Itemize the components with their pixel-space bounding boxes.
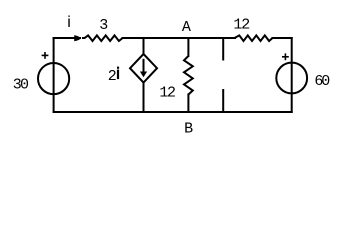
wire bottom segment bbox=[54, 111, 292, 113]
wire top-right segment bbox=[273, 37, 292, 39]
voltage source V2 60 circle bbox=[276, 63, 307, 94]
svg-text:12: 12 bbox=[159, 85, 176, 102]
dependent source arrow bbox=[140, 59, 147, 77]
resistor R1 3 ohm bbox=[82, 35, 123, 41]
resistor R2 12 ohm top bbox=[235, 35, 273, 41]
svg-text:3: 3 bbox=[99, 17, 108, 34]
wire top-middle segment bbox=[123, 37, 235, 39]
wire left branch bbox=[53, 38, 55, 112]
wire open terminal stub lower bbox=[222, 90, 224, 112]
wire top-left segment bbox=[54, 37, 80, 39]
dependent current source U1 2i diamond bbox=[130, 54, 157, 83]
wire right branch bbox=[291, 38, 293, 112]
current arrow i on top wire bbox=[74, 35, 81, 41]
wire dependent source branch lower bbox=[143, 83, 145, 113]
wire resistor branch upper bbox=[187, 38, 189, 56]
resistor R3 12 ohm middle bbox=[184, 56, 193, 95]
wire resistor branch lower bbox=[187, 95, 189, 113]
wire open terminal stub upper bbox=[222, 38, 224, 60]
svg-text:2: 2 bbox=[108, 68, 117, 85]
plus sign of source V2 bbox=[282, 53, 289, 60]
svg-text:A: A bbox=[182, 19, 191, 36]
label 2i dependent source value bbox=[108, 67, 119, 85]
svg-text:B: B bbox=[184, 120, 193, 137]
wire dependent source branch upper bbox=[143, 38, 145, 54]
svg-text:30: 30 bbox=[13, 76, 29, 93]
svg-text:12: 12 bbox=[233, 17, 250, 34]
svg-text:i: i bbox=[67, 14, 71, 31]
svg-text:60: 60 bbox=[314, 73, 330, 90]
voltage source V1 30 circle bbox=[38, 63, 69, 94]
plus sign of source V1 bbox=[42, 52, 49, 59]
